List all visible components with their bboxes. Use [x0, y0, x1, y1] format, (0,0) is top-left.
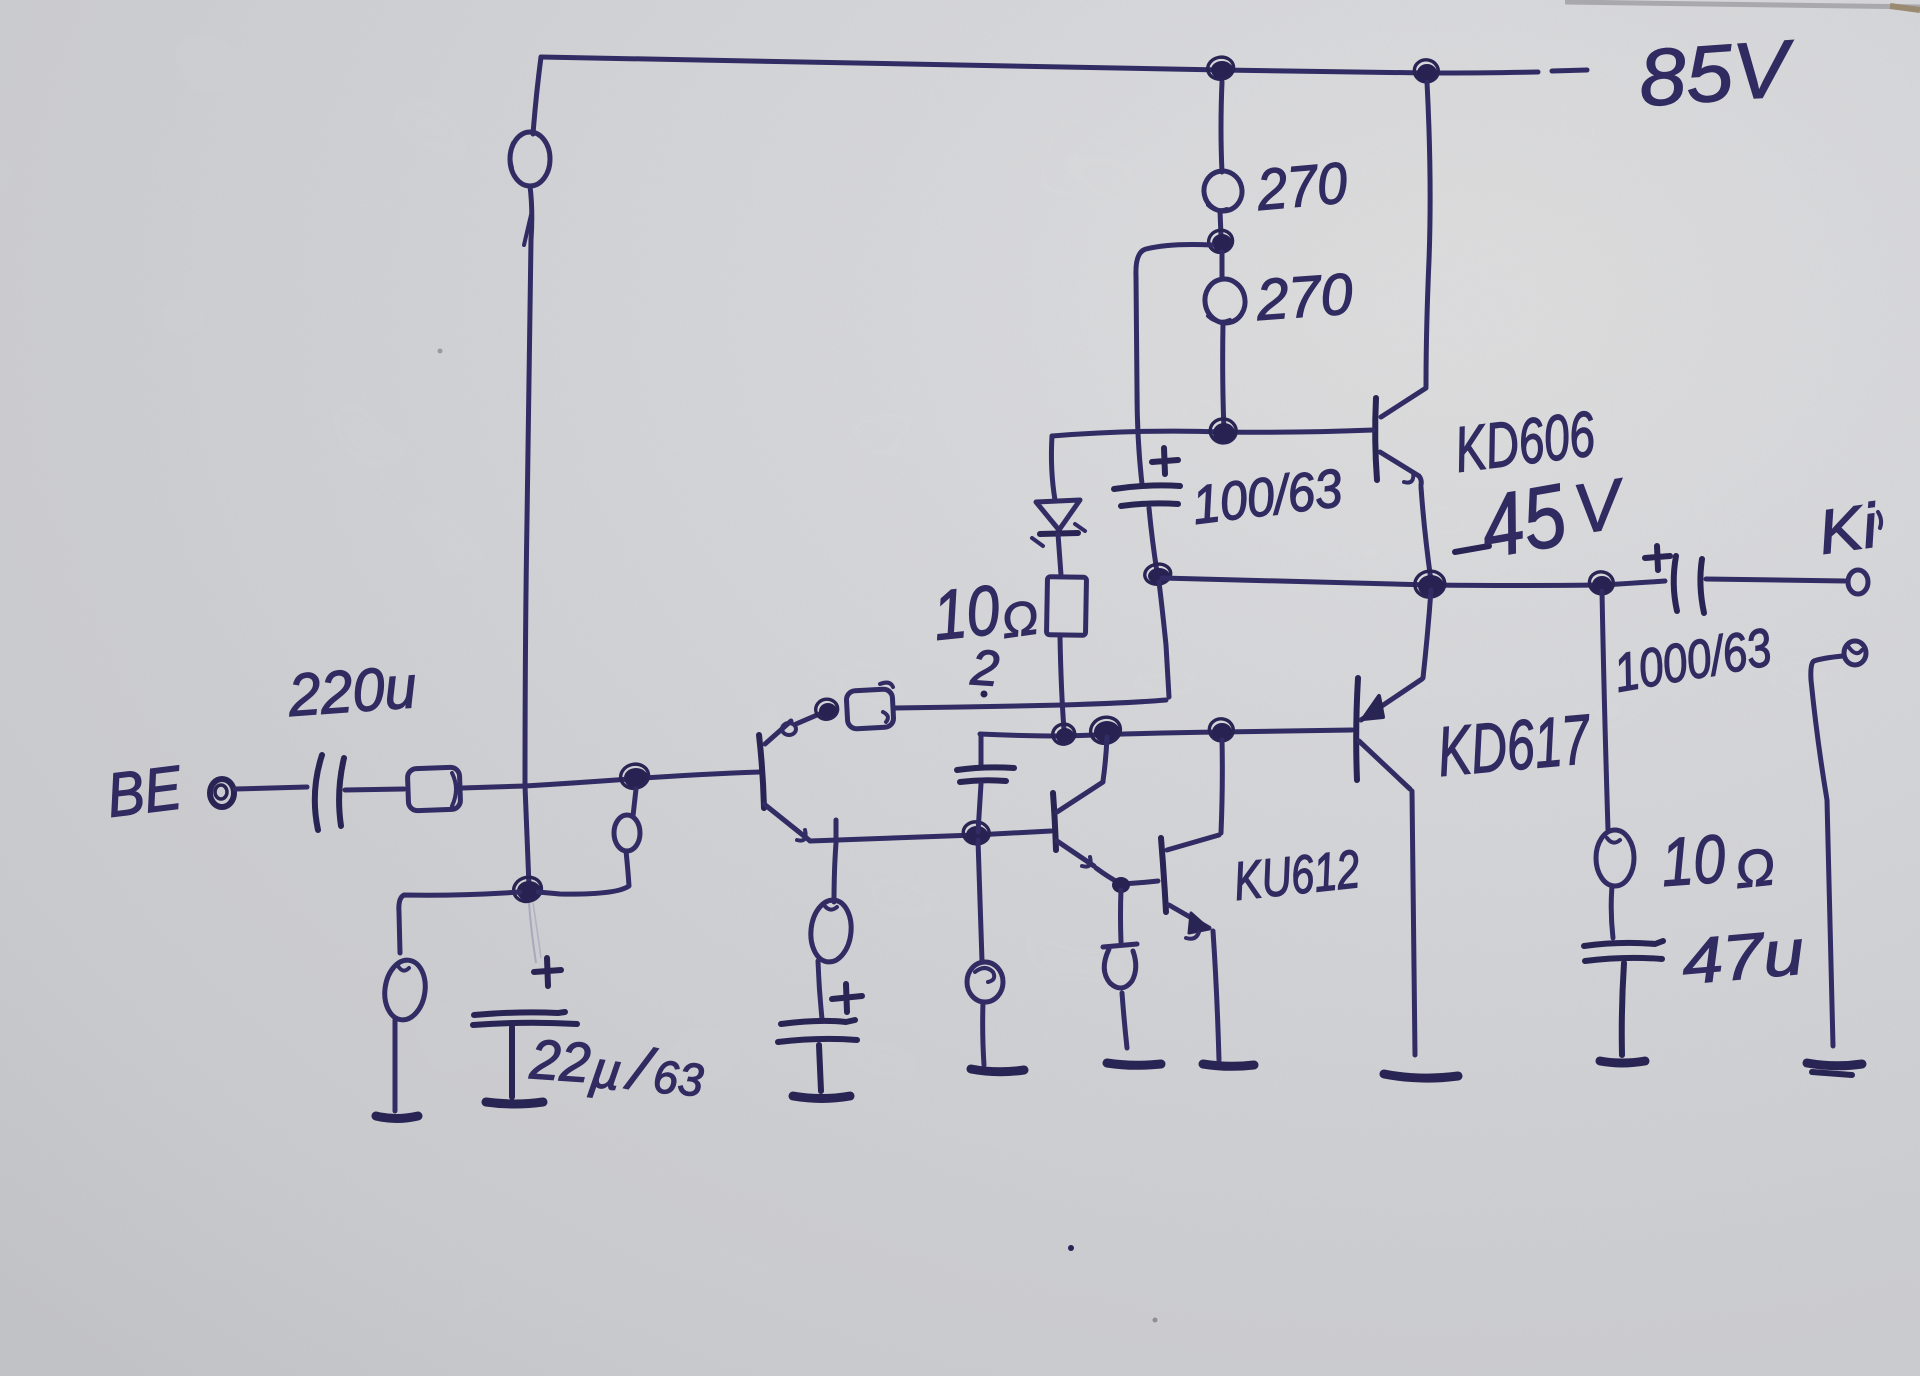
ground cap column — [971, 1069, 1024, 1072]
trimmer left (circle symbol) — [381, 958, 429, 1023]
wire: output rail -45V — [1162, 578, 1665, 586]
svg-text:63: 63 — [651, 1050, 706, 1106]
svg-text:Ω: Ω — [1732, 838, 1777, 900]
wire: resistor 10R down to lower rail — [1060, 637, 1064, 730]
svg-text:85V: 85V — [1636, 23, 1799, 123]
node: KU612 #2 collector junction — [1212, 723, 1232, 741]
wire: right vertical from rail to KD606 collector — [1426, 82, 1430, 386]
svg-text:Ki: Ki — [1814, 491, 1883, 568]
transistor KU612 #1 emitter with arrow — [1057, 841, 1094, 866]
node: rail junction right — [1417, 64, 1437, 82]
capacitor plus (Q1 emitter cap) — [832, 984, 862, 1012]
ferrite bead collector — [846, 689, 894, 729]
capacitor 100/63 — [1114, 485, 1180, 506]
diode (anode top) — [1036, 500, 1080, 530]
wire: rail corner down to terminal — [533, 57, 541, 134]
wire: between 270 resistors — [1220, 211, 1221, 236]
transistor Q1 emitter with arrow — [764, 804, 809, 840]
svg-text:Ω: Ω — [998, 591, 1042, 649]
wire: to ground — [983, 1002, 984, 1065]
resistor 10R right (circle symbol) — [1596, 830, 1634, 886]
capacitor 100/63 plus — [1152, 448, 1178, 474]
wire: #2 emitter to ground — [1213, 931, 1219, 1060]
transistor KU612 #2 base bar — [1161, 838, 1166, 912]
svg-text:BE: BE — [103, 753, 185, 831]
resistor 270 lower (circle symbol) — [1220, 252, 1225, 278]
label -45V — [1455, 546, 1489, 552]
transistor KD617 base bar — [1356, 678, 1358, 780]
node: input junction — [624, 768, 648, 788]
wire: #1 emitter to #2 base — [1096, 868, 1158, 884]
ground KD617 — [1384, 1074, 1458, 1078]
svg-text:10: 10 — [1659, 821, 1728, 901]
ground right — [1807, 1063, 1862, 1066]
transistor KU612 #2 emitter with arrow — [1169, 905, 1209, 928]
node: 1000/63 tap junction — [1592, 576, 1612, 594]
wire: lower base rail (KD617 base node) — [980, 730, 1352, 736]
wire: faint dry-pen continuation — [529, 903, 536, 963]
capacitor above emitter line — [957, 767, 1014, 782]
transistor KD617 collector — [1359, 741, 1410, 789]
wire: +85V top rail — [541, 57, 1587, 73]
terminal Ki lower — [1844, 641, 1866, 665]
node: rail junction left — [1211, 61, 1233, 79]
wire: bead to Q1 base — [462, 772, 760, 788]
capacitor 47u — [1584, 941, 1663, 961]
photo top edge — [1565, 2, 1920, 7]
node: junction between 270s — [1212, 234, 1232, 252]
wire: lower terminal to right ground — [1811, 656, 1843, 1046]
svg-text:2: 2 — [968, 639, 1001, 697]
svg-text:47u: 47u — [1679, 916, 1807, 998]
svg-text:22: 22 — [527, 1027, 592, 1094]
ink speck 1 — [1068, 1245, 1074, 1251]
wire: tap down to 10R circle — [1602, 591, 1608, 830]
wire: KU612 #1 collector riser — [1103, 737, 1107, 781]
capacitor 22u/63 — [473, 1012, 577, 1025]
wire: Q1 emitter line to KU612 — [810, 831, 1051, 841]
resistor 10R (rectangle) — [1046, 577, 1086, 636]
wire: trimmer to ground — [393, 1020, 398, 1111]
wire: cup to ground — [1122, 993, 1127, 1048]
wire: bead right to riser — [895, 700, 1166, 708]
node: 10R stem junction — [1056, 728, 1074, 744]
svg-text:270: 270 — [1253, 261, 1354, 333]
svg-text:270: 270 — [1254, 150, 1350, 223]
node: emitter/base junction — [1112, 877, 1130, 893]
terminal circle top-left — [510, 132, 550, 186]
wire: Q1 emitter degeneration branch down — [834, 820, 836, 902]
wire: bias wire to left trimmer — [399, 892, 520, 953]
wire: KD606 emitter down to output node — [1421, 487, 1431, 581]
transistor Q1 base bar — [759, 735, 764, 808]
terminal Ki upper — [1848, 570, 1868, 594]
wire: 100/63 bottom to output node — [1149, 508, 1157, 572]
capacitor 220u — [315, 755, 344, 830]
wire: 270 lower to base rail — [1223, 323, 1224, 430]
wire: long left vertical — [525, 186, 532, 886]
wire: base rail corner down to diode — [1051, 436, 1055, 500]
transistor KU612 #1 collector — [1057, 782, 1103, 812]
resistor 270 upper (circle symbol) — [1200, 167, 1245, 214]
ferrite bead input — [407, 767, 460, 811]
resistor 270 upper: stem from rail — [1221, 82, 1222, 172]
ink speck 2 — [1153, 1318, 1158, 1323]
terminal circle (cap column) — [967, 962, 1003, 1002]
node: output node (cap/-45V junction) — [1148, 568, 1170, 584]
node: junction 270 chain on base rail — [1213, 423, 1235, 443]
wire: diode to resistor 10R — [1058, 534, 1061, 575]
capacitor 1000/63 (series, vertical plates) — [1674, 556, 1704, 613]
wire: riser up to output node — [1159, 582, 1169, 697]
transistor KU612 #2 collector — [1167, 835, 1219, 850]
wire: circle down and left to bias wire — [538, 851, 629, 894]
wire: emitter junction down to terminal circle — [978, 840, 982, 961]
wire: upper cap column stem — [979, 736, 984, 766]
node: emitter line / cap column junction — [966, 826, 988, 844]
transistor KD606 emitter with arrow — [1380, 452, 1421, 485]
transistor Q1 collector — [765, 721, 791, 744]
transistor KU612 #1 base bar — [1053, 793, 1056, 850]
wire: #2 collector riser — [1221, 740, 1222, 833]
wire: KD617 emitter riser to output node — [1423, 590, 1431, 678]
ink speck 3 — [438, 349, 443, 354]
terminal BE — [210, 779, 234, 807]
wire: trimmer to cap — [818, 961, 822, 1019]
node: collector/bead junction — [819, 703, 837, 719]
node: left vertical / bottom wire junction — [517, 881, 541, 901]
transistor KD606 base bar — [1375, 398, 1377, 480]
capacitor 1000/63 plus — [1645, 546, 1670, 570]
wire: KD606 base rail — [1052, 430, 1373, 436]
terminal circle below input junction — [614, 815, 640, 851]
transistor KD606 collector diagonal — [1381, 388, 1426, 417]
capacitor 22u/63 plus sign — [534, 958, 561, 986]
wire: junction down to cup terminal — [1118, 890, 1124, 942]
transistor KD617 emitter (arrow into base, up-right) — [1361, 679, 1422, 720]
wire: 220u to bead — [345, 789, 404, 790]
svg-text:KD617: KD617 — [1435, 700, 1595, 791]
ground KU612 #2 — [1203, 1064, 1254, 1066]
wire: cap down to emitter line — [978, 784, 981, 832]
cup terminal — [1103, 944, 1137, 988]
ground left — [376, 1116, 418, 1119]
wire: 10R circle to 47u cap — [1611, 886, 1613, 938]
wire: bypass line left and down to 100/63 cap — [1136, 245, 1212, 485]
wire: BE to 220u — [235, 787, 307, 789]
trimmer Q1 emitter (circle symbol) — [808, 898, 854, 964]
ground cup — [1107, 1063, 1161, 1065]
wire: 1000/63 to Ki terminal — [1706, 579, 1845, 581]
capacitor Q1 emitter — [778, 1020, 857, 1042]
node: KD606/KD617 emitter junction — [1418, 575, 1444, 597]
wire: KD617 collector down to ground — [1412, 791, 1415, 1055]
svg-text:220u: 220u — [285, 653, 418, 729]
node: KU612 #1 collector junction — [1094, 721, 1120, 743]
